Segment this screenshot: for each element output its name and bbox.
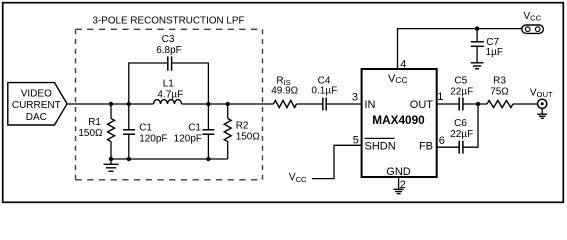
svg-text:R3: R3 <box>493 75 506 86</box>
capacitor C7 <box>471 29 503 63</box>
svg-text:22µF: 22µF <box>450 129 473 140</box>
capacitor C1 (first) <box>123 104 167 159</box>
wire: C6 up to output node <box>463 104 478 147</box>
svg-text:3: 3 <box>352 91 358 103</box>
svg-text:CURRENT: CURRENT <box>12 100 61 111</box>
capacitor C5 <box>450 75 473 110</box>
svg-text:C3: C3 <box>162 34 175 45</box>
pin 2 wire <box>398 177 400 189</box>
svg-text:FB: FB <box>419 141 433 153</box>
resistor R3 <box>487 75 513 107</box>
capacitor C6 <box>450 118 473 154</box>
wire: C5 to R3 <box>463 103 487 105</box>
svg-text:VIDEO: VIDEO <box>21 89 52 100</box>
svg-text:5: 5 <box>353 134 359 146</box>
wire: RIS to C4 <box>297 103 323 105</box>
resistor RIS <box>271 75 298 107</box>
svg-text:6: 6 <box>439 135 445 147</box>
svg-text:1: 1 <box>437 91 443 103</box>
svg-text:6.8pF: 6.8pF <box>156 45 182 56</box>
svg-text:VOUT: VOUT <box>530 88 553 99</box>
svg-text:4.7µF: 4.7µF <box>157 90 183 101</box>
wire: C4 to IN pin 3 <box>327 103 362 105</box>
svg-text:L1: L1 <box>163 79 175 90</box>
svg-text:R2: R2 <box>236 121 249 132</box>
capacitor C3 bypass loop <box>129 34 209 104</box>
svg-text:120pF: 120pF <box>174 133 202 144</box>
wire: DAC to L1 <box>67 103 154 105</box>
svg-text:R1: R1 <box>88 117 101 128</box>
svg-text:C1: C1 <box>188 122 201 133</box>
wire: L1 to RIS <box>182 103 274 105</box>
wire: R3 to VOUT <box>513 103 538 105</box>
svg-text:150Ω: 150Ω <box>236 132 261 143</box>
VOUT terminal <box>530 88 553 109</box>
wire: OUT pin 1 to C5 <box>437 103 460 105</box>
svg-text:49.9Ω: 49.9Ω <box>271 86 298 97</box>
svg-text:150Ω: 150Ω <box>78 128 103 139</box>
capacitor C4 <box>311 75 337 110</box>
ground (pin 2) <box>394 189 404 193</box>
inductor L1 <box>154 79 184 104</box>
node: bottom bus junctions <box>109 157 113 161</box>
svg-text:22µF: 22µF <box>450 86 473 97</box>
svg-text:C1: C1 <box>139 122 152 133</box>
node: C5/C6/R3 junction <box>476 102 480 106</box>
svg-text:C5: C5 <box>454 75 467 86</box>
wire: bottom ground bus <box>111 158 228 160</box>
resistor R2 <box>224 104 260 159</box>
resistor R1 <box>78 104 114 159</box>
svg-text:0.1µF: 0.1µF <box>311 86 337 97</box>
wire: VCC to SHDN pin 5 <box>312 145 362 178</box>
ground (under R1) <box>104 159 119 171</box>
op-amp U1 MAX4090 <box>362 69 437 178</box>
capacitor C1 (second) <box>174 104 215 159</box>
pin 4 wire to VCC rail <box>398 29 522 69</box>
svg-text:OUT: OUT <box>410 99 434 111</box>
svg-text:VCC: VCC <box>524 11 542 23</box>
svg-text:C6: C6 <box>454 118 467 129</box>
svg-text:120pF: 120pF <box>139 133 167 144</box>
svg-text:GND: GND <box>386 166 411 178</box>
node: C7 tap <box>475 26 479 30</box>
ground (under C7) <box>471 63 484 69</box>
svg-text:3-POLE RECONSTRUCTION LPF: 3-POLE RECONSTRUCTION LPF <box>93 15 245 26</box>
svg-text:4: 4 <box>400 59 406 71</box>
svg-text:75Ω: 75Ω <box>490 86 509 97</box>
svg-text:SHDN: SHDN <box>365 141 396 153</box>
VIDEO CURRENT DAC source <box>8 83 67 125</box>
svg-text:MAX4090: MAX4090 <box>372 113 425 127</box>
svg-text:DAC: DAC <box>26 112 47 123</box>
svg-text:1µF: 1µF <box>486 47 503 58</box>
VCC terminal (top right) <box>522 11 544 34</box>
svg-text:IN: IN <box>365 99 376 111</box>
LPF dashed box <box>76 29 263 180</box>
node: main wire junctions <box>109 102 113 106</box>
wire: FB pin 6 to C6 <box>437 146 460 148</box>
svg-text:VCC: VCC <box>388 73 408 85</box>
ground (under VOUT) <box>537 108 547 118</box>
